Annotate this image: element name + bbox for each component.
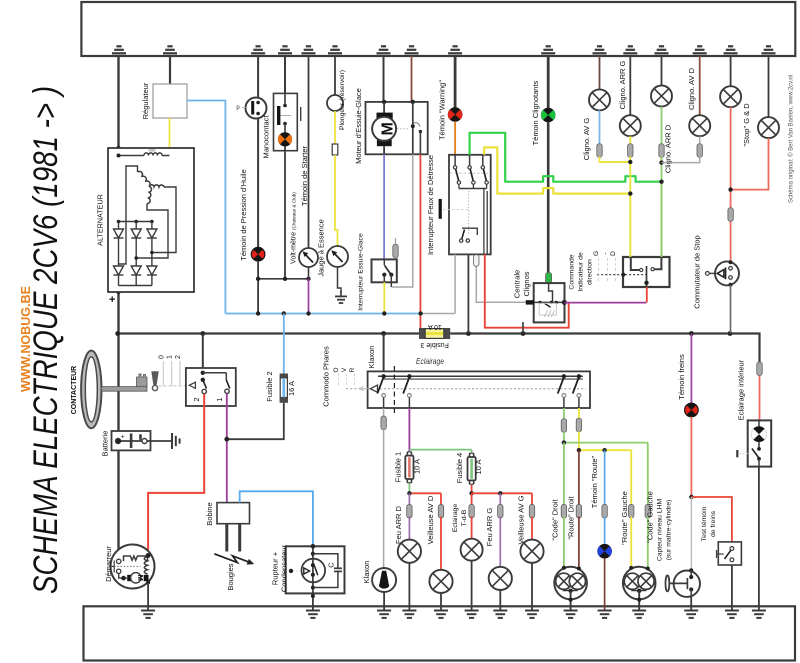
svg-text:Démarreur: Démarreur <box>104 546 113 582</box>
ground symbol on top bus at x=335 <box>328 52 342 54</box>
wire yellow to Route Gauche <box>630 450 632 506</box>
ground symbol on top bus at x=599.5 <box>593 52 607 54</box>
svg-text:16 A: 16 A <box>287 381 296 396</box>
svg-text:Fusible 3: Fusible 3 <box>420 341 449 348</box>
ground symbol on top bus at x=308.5 <box>302 52 316 54</box>
starter telltale box (Temoin de Starter) <box>274 56 301 151</box>
lamp Cligno ARR D <box>651 86 672 107</box>
lamp Feu ARR G with ground <box>489 567 512 590</box>
svg-text:Témoin "Route": Témoin "Route" <box>590 455 599 508</box>
lamp Cligno ARR G <box>620 115 641 136</box>
svg-text:Bougies: Bougies <box>226 563 235 590</box>
wire starter telltale down to gauge node <box>284 146 286 279</box>
headlamp gauche ground <box>632 591 646 619</box>
ground symbol on top bus at x=383.5 <box>377 52 391 54</box>
wire yellow sender lower <box>335 155 338 247</box>
wire red turn switch to flasher <box>646 287 648 303</box>
wire salmon temoin freins down <box>690 417 692 497</box>
svg-text:"Code" Droit: "Code" Droit <box>551 499 560 541</box>
svg-text:Interrupteur Essuie-Glace: Interrupteur Essuie-Glace <box>358 233 365 311</box>
headlamp Code/Route Gauche (double) <box>623 567 656 600</box>
fuse Fusible 3 10A (horizontal) <box>419 328 450 339</box>
wire fuse 1 output <box>408 483 410 493</box>
wire blue node horizontal <box>225 313 420 315</box>
wire violet wiper motor to switch <box>383 154 385 258</box>
svg-text:CONTACTEUR: CONTACTEUR <box>71 366 78 414</box>
svg-text:"Stop" G & D: "Stop" G & D <box>742 103 751 147</box>
wire bus to Cligno AV G <box>599 56 601 89</box>
starter ground <box>141 583 155 619</box>
svg-text:1: 1 <box>167 355 174 359</box>
svg-text:Manocontact: Manocontact <box>262 115 271 159</box>
lamp Eclairage T-d-B with ground <box>461 539 483 561</box>
wire yellow wiper switch to blue node <box>383 282 385 313</box>
junction dot brake net <box>689 495 693 499</box>
wire yellow hazard to turn circuit left <box>484 147 630 193</box>
alternator field coil <box>117 148 170 158</box>
wire red lamp feed left <box>409 492 441 494</box>
indicator lamp Temoin Warning (red) <box>448 108 462 122</box>
lamp Stop G <box>720 86 741 107</box>
svg-text:Témoin "Warning": Témoin "Warning" <box>438 80 447 140</box>
wire fuse 4 output <box>471 485 473 494</box>
wire rail corner to interior light <box>757 362 762 376</box>
wire main feed from top bus to starter/battery (x=118.5) <box>117 56 119 556</box>
svg-text:Klaxon: Klaxon <box>362 561 371 584</box>
wire LHM sensor ground <box>690 597 692 610</box>
wire orange warning to hazard switch <box>454 121 456 155</box>
manocontact (oil pressure switch) <box>242 56 267 247</box>
svg-text:O: O <box>333 367 340 372</box>
ground symbol on top bus at x=285 <box>278 52 292 54</box>
ground symbol on top bus at x=455.1 <box>448 52 462 54</box>
ground symbol on top bus at x=258.1 <box>251 52 265 54</box>
junction dots gauge node <box>256 277 311 281</box>
junction dot temoin route <box>602 448 606 452</box>
svg-text:Cligno. ARR G: Cligno. ARR G <box>618 60 627 109</box>
svg-text:Clignos: Clignos <box>522 271 531 296</box>
wire main supply rail <box>118 332 419 334</box>
indicator lamp Temoin freins (red) <box>685 403 699 417</box>
svg-text:R: R <box>349 367 356 372</box>
junction dot route net <box>577 448 581 452</box>
wire purple to Feu ARR D <box>408 493 410 506</box>
svg-text:"Code" Gauche: "Code" Gauche <box>646 491 655 543</box>
wiper switch box (Interrupteur Essuie-Glace) <box>372 259 397 287</box>
hazard switch button bar <box>439 199 442 219</box>
ground symbol on top bus at x=411.5 <box>405 52 419 54</box>
svg-text:Schéma original: © Bert Van Ba: Schéma original: © Bert Van Baelen, www.… <box>788 75 795 203</box>
battery ground (sideways) <box>147 433 181 449</box>
ground symbol on top bus at x=170 <box>163 52 177 54</box>
ground symbol on top bus at x=730.6 <box>724 52 738 54</box>
wire rail to commodo <box>383 334 385 377</box>
breaker box (Rupteur + Condensateur) <box>286 544 345 593</box>
svg-text:Régulateur: Régulateur <box>141 82 150 119</box>
svg-text:Capteur niveau LHM: Capteur niveau LHM <box>657 498 664 561</box>
starter motor (Demarreur) <box>111 545 155 589</box>
alternator stator windings (star) <box>138 171 165 203</box>
ground for fuel gauge <box>335 267 347 304</box>
wire red lamp feed right <box>472 492 532 494</box>
junction dot fuse4 out <box>469 491 473 495</box>
wire gray Cligno AV D link <box>699 136 701 148</box>
wire purple voltmeter to blue node <box>308 279 310 314</box>
battery box (Batterie) <box>112 431 151 450</box>
alternator stator connection wires <box>119 166 177 264</box>
svg-text:Témoin de Pression d'Huile: Témoin de Pression d'Huile <box>239 169 248 260</box>
turn switch position labels G - D <box>593 251 617 283</box>
wire green to Code Droit <box>563 443 565 506</box>
fuse Fusible 2 16A (vertical) <box>280 374 288 403</box>
lamp Cligno AV G <box>589 89 610 110</box>
wire green commodo code wire <box>563 408 565 419</box>
svg-text:Interrupteur Feux de Détresse: Interrupteur Feux de Détresse <box>426 155 435 255</box>
wire bus to voltmeter <box>308 56 310 248</box>
svg-text:Feu ARR G: Feu ARR G <box>485 508 494 547</box>
wire fuse 2 to coil node <box>227 403 284 439</box>
svg-text:000: 000 <box>149 148 157 153</box>
wire bus to Stop lamp left <box>730 56 732 86</box>
svg-text:Feu ARR D: Feu ARR D <box>394 505 403 544</box>
wire purple ignition to coil <box>226 394 228 503</box>
wire green fuse link <box>409 449 471 451</box>
horn (Klaxon) <box>372 568 396 592</box>
svg-text:Rupteur +: Rupteur + <box>271 551 280 585</box>
wire regulator feed from bus <box>169 56 171 84</box>
LHM level sensor (Capteur niveau LHM) <box>666 568 701 597</box>
wire green code net <box>564 442 648 444</box>
wire gray node horizontal <box>421 313 456 315</box>
wire bus to turn telltale <box>547 56 550 108</box>
junction dot coil node <box>224 437 229 442</box>
svg-text:de freins: de freins <box>710 510 717 537</box>
ignition coil box (Bobine) <box>217 503 250 524</box>
svg-text:Indicateur de: Indicateur de <box>578 252 585 292</box>
wire breaker to ground <box>312 593 314 610</box>
wire bus to Cligno AV D <box>699 56 701 115</box>
svg-text:Fusible 2: Fusible 2 <box>265 371 274 401</box>
ignition position labels 0 1 2 <box>158 355 186 387</box>
junction dots on blue node <box>256 311 423 315</box>
svg-text:-: - <box>602 252 609 254</box>
headlamp droit ground <box>564 591 578 619</box>
svg-text:Veilleuse AV D: Veilleuse AV D <box>426 495 435 544</box>
svg-text:G: G <box>593 251 600 256</box>
wire bus to Cligno ARR D <box>661 56 663 86</box>
svg-text:Cligno. AV D: Cligno. AV D <box>687 67 696 110</box>
ground symbol on top bus at x=630.3 <box>623 52 637 54</box>
junction dots green turn net <box>659 160 663 183</box>
top ground bus bar <box>81 2 795 56</box>
ground symbol on top bus at x=699.7 <box>693 52 707 54</box>
ignition key (CONTACTEUR) <box>81 351 147 429</box>
turn switch box (Commande Indicateur de direction) <box>597 257 670 287</box>
wire purple rail to Temoin freins <box>690 334 692 404</box>
fuel gauge (Jauge a Essence) <box>327 246 348 267</box>
svg-text:10 A: 10 A <box>413 459 422 474</box>
wire yellow Cligno AV G link <box>600 157 631 163</box>
wire red to Eclairage T-d-B <box>471 493 473 506</box>
wire maroon to Route Droit <box>578 450 580 506</box>
ground breaker <box>306 610 320 612</box>
svg-text:Eclairage: Eclairage <box>416 356 444 366</box>
svg-text:M: M <box>380 122 397 135</box>
svg-text:Cligno. ARR D: Cligno. ARR D <box>664 124 673 173</box>
svg-text:10 A: 10 A <box>474 459 483 474</box>
wire red to test switch <box>691 497 732 542</box>
svg-text:2: 2 <box>192 397 201 401</box>
svg-text:Eclairage intérieur: Eclairage intérieur <box>737 359 746 420</box>
lamp Veilleuse AV G with ground <box>520 540 543 563</box>
wire bus to warning telltale <box>454 56 457 108</box>
svg-text:M: M <box>136 575 145 581</box>
wire yellow turn switch left feed <box>630 257 632 262</box>
wire blue to Temoin Route <box>604 450 606 506</box>
lamp Feu ARR D with ground <box>398 540 421 563</box>
indicator lamp Temoin Route (blue) <box>598 544 612 558</box>
wiper motor internal terminals <box>397 100 422 155</box>
svg-text:Moteur d'Essuie-Glace: Moteur d'Essuie-Glace <box>354 88 363 164</box>
steering column switch box (Commodo Phares) <box>346 366 590 413</box>
junction dots on main rail <box>115 331 732 336</box>
alternator rectifier diode bridge <box>114 220 157 286</box>
flasher unit box (Centrale Clignos) <box>523 273 567 334</box>
wire purple flasher to turn switch <box>565 302 647 304</box>
wire red to Veilleuse AV G <box>531 493 533 506</box>
wire hazard to main rail <box>467 254 469 333</box>
wire main supply rail right part <box>450 334 759 363</box>
stop light switch (Commutateur de Stop) <box>706 260 740 287</box>
wire blue coil to breaker <box>240 491 313 545</box>
ignition key lever symbol <box>151 371 158 390</box>
svg-text:+: + <box>121 434 125 441</box>
svg-text:"Route" Gauche: "Route" Gauche <box>620 491 629 545</box>
ground horn <box>377 610 391 612</box>
svg-text:V: V <box>341 367 348 372</box>
spark symbol (Bougies) <box>214 554 254 565</box>
headlamp Code/Route Droit (double) <box>554 567 587 600</box>
spark plug leads <box>227 524 240 552</box>
ground symbol on top bus at x=119 <box>112 52 126 54</box>
regulator box (Regulateur) <box>153 84 187 118</box>
svg-text:+: + <box>109 294 115 306</box>
svg-text:Test témoin: Test témoin <box>701 506 708 541</box>
svg-text:direction: direction <box>587 259 594 285</box>
wire yellow Cligno ARR G down <box>629 136 631 148</box>
svg-text:"Route" Droit: "Route" Droit <box>567 495 576 539</box>
junction dot fuse1 out <box>407 491 411 495</box>
ground symbol on top bus at x=661.5 <box>655 52 669 54</box>
svg-text:Commande: Commande <box>569 254 576 289</box>
lamp Cligno AV D <box>689 115 710 136</box>
wire oil telltale to blue node <box>257 261 259 314</box>
svg-text:10 A: 10 A <box>428 323 442 330</box>
svg-text:0: 0 <box>158 355 165 359</box>
svg-text:ALTERNATEUR: ALTERNATEUR <box>96 194 105 246</box>
ground symbol on top bus at x=548.2 <box>541 52 555 54</box>
svg-text:1: 1 <box>215 397 224 401</box>
wire turn telltale to flasher unit <box>547 122 550 273</box>
svg-text:(sur maître-cylindre): (sur maître-cylindre) <box>666 500 673 561</box>
svg-text:Fusible 4: Fusible 4 <box>455 453 464 483</box>
wire light blue Cligno AV G down <box>599 110 601 148</box>
wire light green Cligno ARR D down <box>661 107 663 149</box>
wire red hazard to flasher output node <box>485 254 569 327</box>
wire brown wiper feed from bus <box>411 56 413 102</box>
lamp Veilleuse AV D with ground <box>429 570 452 593</box>
svg-text:Bobine: Bobine <box>205 502 214 525</box>
fuel tank sender (Plongeur reservoir) <box>327 56 343 111</box>
svg-text:D: D <box>610 251 617 256</box>
junction dot battery on main wire <box>116 439 121 444</box>
svg-text:Eclairage: Eclairage <box>452 504 459 533</box>
wire bus to Stop lamp right <box>768 56 770 117</box>
svg-text:Veilleuse AV G: Veilleuse AV G <box>517 495 526 544</box>
wire horn to ground <box>383 592 385 610</box>
svg-text:Plongeur (réservoir): Plongeur (réservoir) <box>339 70 346 130</box>
svg-text:Fusible 1: Fusible 1 <box>394 452 403 482</box>
spare connector above wiper switch <box>395 238 397 246</box>
indicator lamp Temoin de Pression d'Huile (red) <box>251 247 265 261</box>
svg-text:Condensateur: Condensateur <box>280 544 289 592</box>
wire green to Code Gauche <box>647 443 649 506</box>
wire blue regulator output <box>187 101 225 314</box>
svg-text:Centrale: Centrale <box>513 270 522 298</box>
svg-text:Commutateur de Stop: Commutateur de Stop <box>693 235 702 308</box>
svg-text:WWW.NOBUG.BE: WWW.NOBUG.BE <box>18 286 33 392</box>
svg-text:Cligno. AV G: Cligno. AV G <box>582 118 591 161</box>
svg-text:Témoin freins: Témoin freins <box>677 354 686 400</box>
svg-text:Volt-mètre (Chateaux & Club): Volt-mètre (Chateaux & Club) <box>291 192 298 264</box>
wire stop switch to rail <box>730 285 732 334</box>
wire interior light ground <box>758 466 760 610</box>
wire yellow route net <box>579 449 631 451</box>
svg-text:Témoin Clignotants: Témoin Clignotants <box>531 80 540 145</box>
svg-text:Klaxon: Klaxon <box>367 346 376 369</box>
hazard switch box (Interrupteur Feux de Detresse) <box>443 155 491 255</box>
svg-text:Jauge à Essence: Jauge à Essence <box>317 219 326 277</box>
wire gray wiper motor to switch right side <box>392 154 413 287</box>
wire red stop lamps to switch <box>730 107 732 189</box>
voltmeter (Volt-metre) <box>299 248 318 279</box>
bottom ground bus bar <box>84 606 796 660</box>
junction dot stop net <box>728 187 732 191</box>
fuse Fusible 4 10A <box>469 453 475 458</box>
interior light box (Eclairage interieur) <box>736 420 771 466</box>
wire gauge node horizontal <box>258 278 308 280</box>
alternator box (ALTERNATEUR) <box>108 148 194 292</box>
svg-text:Batterie: Batterie <box>101 431 110 457</box>
wire hazard to flasher (with connector) <box>476 254 530 302</box>
indicator lamp Temoin Clignotants (green) <box>541 108 555 122</box>
commodo position labels O V R <box>333 367 366 391</box>
wire gray to LHM sensor <box>690 497 692 570</box>
brake test switch (Test temoin de freins) <box>717 542 742 565</box>
wire test switch ground <box>731 565 733 610</box>
wire bus to Cligno ARR G <box>629 56 631 115</box>
fuse Fusible 1 10A <box>407 451 413 456</box>
wire gray commodo to horn <box>383 408 385 416</box>
ignition switch box <box>186 368 236 406</box>
wire green hazard to turn circuit right <box>470 133 662 182</box>
svg-text:T-d-B: T-d-B <box>461 509 468 526</box>
wire red wiper motor to fuse 3 node <box>419 154 421 329</box>
wire red ignition to starter <box>148 394 204 555</box>
wire maroon temoin route ground <box>604 558 606 610</box>
lamp Stop D <box>758 117 779 138</box>
wire yellow regulator to alternator field <box>169 118 171 156</box>
wire yellow commodo route wire <box>578 408 580 419</box>
junction dot code net <box>562 440 566 444</box>
wire yellow sender to gauge <box>334 111 336 144</box>
connector on sender wire <box>332 144 338 155</box>
svg-text:2: 2 <box>175 355 182 359</box>
wire gray hazard to blue node <box>454 254 456 313</box>
wire blue to fuse 2 <box>283 314 285 376</box>
svg-text:C: C <box>327 562 336 568</box>
junction dots yellow turn net <box>628 160 632 196</box>
wiper motor box (Moteur d'Essuie-Glace) <box>366 56 428 154</box>
wire purple commodo to fuse 1 <box>408 408 410 451</box>
ground symbol on top bus at x=768.5 <box>762 52 776 54</box>
indicator lamp Temoin de Starter (orange) <box>278 133 291 146</box>
junction dot feu arr g <box>498 491 502 495</box>
svg-text:Commodo Phares: Commodo Phares <box>322 346 331 407</box>
wire purple to Feu ARR G <box>499 493 501 506</box>
wire red to Veilleuse AV D <box>438 504 443 518</box>
wire rail to ignition switch <box>202 334 204 373</box>
wire light green turn switch right feed <box>661 182 663 257</box>
